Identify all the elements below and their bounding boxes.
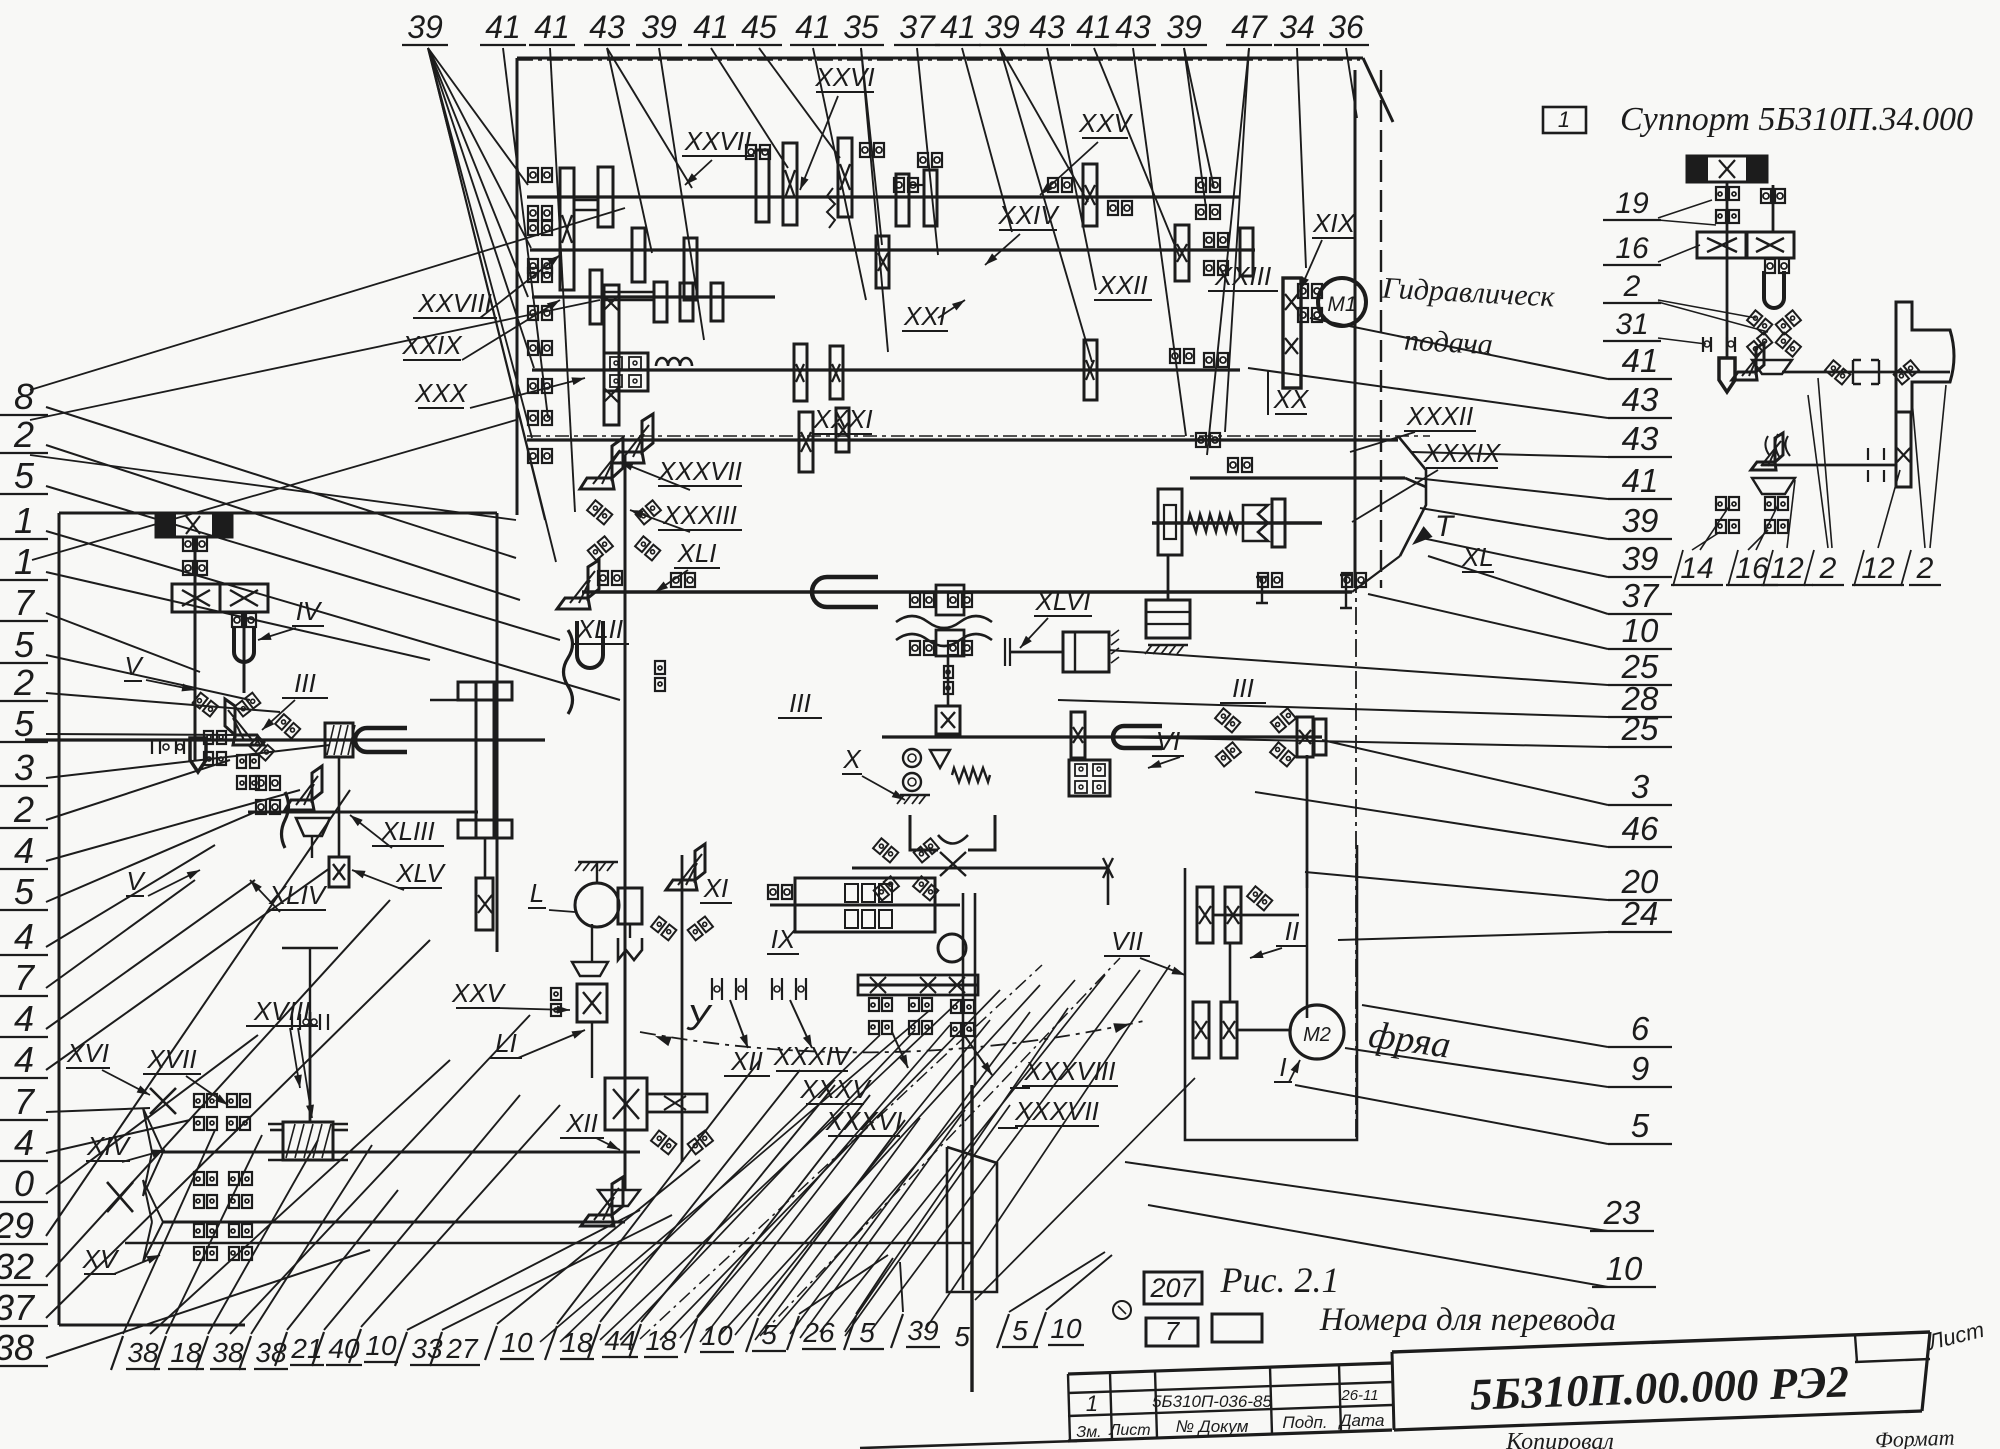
subdiagram |0|0| mark xyxy=(1703,337,1735,352)
svg-text:III: III xyxy=(789,688,811,718)
svg-text:38: 38 xyxy=(127,1337,159,1368)
svg-text:38: 38 xyxy=(255,1337,287,1368)
fittings on shaft III center xyxy=(1071,712,1085,758)
svg-text:4: 4 xyxy=(14,1039,34,1080)
svg-text:III: III xyxy=(294,668,316,698)
svg-text:7: 7 xyxy=(1165,1316,1181,1346)
svg-text:5: 5 xyxy=(14,455,35,496)
central vertical bearings xyxy=(655,661,665,674)
long thin crossing lines from left top xyxy=(30,208,625,390)
svg-text:7: 7 xyxy=(14,1081,36,1122)
shaft XXXII right y478 xyxy=(1190,476,1405,479)
svg-text:XXXV: XXXV xyxy=(799,1074,872,1104)
svg-text:XXVII: XXVII xyxy=(684,126,751,156)
shaft y523 hanger xyxy=(1167,555,1170,600)
svg-text:XXXVII: XXXVII xyxy=(1014,1096,1099,1126)
svg-text:XLVI: XLVI xyxy=(1035,586,1091,616)
svg-text:5: 5 xyxy=(14,871,35,912)
svg-text:34: 34 xyxy=(1279,9,1315,45)
svg-text:5Б310П-036-85: 5Б310П-036-85 xyxy=(1152,1392,1272,1411)
svg-text:Дата: Дата xyxy=(1338,1411,1385,1430)
svg-text:43: 43 xyxy=(589,9,625,45)
xbox on vertical x592 y1003 xyxy=(572,962,608,976)
shaft y812 and fittings xyxy=(248,811,478,814)
xbox with arm x626 y1104 xyxy=(605,1078,647,1130)
svg-text:5: 5 xyxy=(954,1321,970,1352)
svg-text:41: 41 xyxy=(940,9,976,45)
svg-text:IV: IV xyxy=(296,596,323,626)
svg-text:М1: М1 xyxy=(1327,293,1356,316)
shaft III center y737 xyxy=(882,735,1322,738)
svg-text:207: 207 xyxy=(1149,1273,1196,1303)
suppport callout box xyxy=(1543,107,1586,133)
svg-text:47: 47 xyxy=(1231,9,1268,45)
svg-text:4: 4 xyxy=(14,998,34,1039)
gears shaft4 right xyxy=(794,344,807,401)
central vertical shaft XXXIII x625 xyxy=(624,455,627,1190)
svg-text:19: 19 xyxy=(1615,187,1649,220)
leaders from top labels xyxy=(503,48,548,418)
bottom right trapezoid outline xyxy=(947,1147,997,1292)
svg-text:9: 9 xyxy=(1631,1050,1649,1087)
svg-text:38: 38 xyxy=(212,1337,244,1368)
svg-text:4: 4 xyxy=(14,916,34,957)
shaft III left y740 xyxy=(25,738,545,741)
svg-text:10: 10 xyxy=(365,1330,397,1361)
X cross mark left xyxy=(107,1182,133,1212)
svg-text:Суппорт 5Б310П.34.000: Суппорт 5Б310П.34.000 xyxy=(1620,101,1973,138)
bearing pairs center bottom xyxy=(712,978,746,1000)
shaft XXVII y250 xyxy=(530,248,1255,251)
svg-text:5: 5 xyxy=(1012,1315,1028,1346)
svg-text:4: 4 xyxy=(14,830,34,871)
svg-text:Номера для перевода: Номера для перевода xyxy=(1319,1302,1616,1338)
vertical shaft XVIII x310 xyxy=(309,1012,312,1122)
svg-text:XXXIX: XXXIX xyxy=(1423,438,1502,468)
svg-text:XLII: XLII xyxy=(576,614,623,644)
svg-text:5: 5 xyxy=(14,703,35,744)
note box 207 xyxy=(1144,1272,1202,1304)
svg-text:XXX: XXX xyxy=(414,378,469,408)
svg-text:10: 10 xyxy=(1606,1250,1643,1287)
svg-text:XLIII: XLIII xyxy=(380,816,434,846)
svg-text:XXIV: XXIV xyxy=(997,200,1060,230)
svg-text:Подп.: Подп. xyxy=(1282,1413,1327,1432)
title block big cell xyxy=(1392,1332,1930,1352)
left bearing stacks upper box xyxy=(528,168,538,182)
svg-text:1: 1 xyxy=(14,541,34,582)
svg-text:5: 5 xyxy=(761,1319,777,1350)
svg-text:35: 35 xyxy=(843,9,879,45)
drum Г and cup xyxy=(578,861,618,864)
svg-text:X: X xyxy=(842,744,862,774)
svg-text:32: 32 xyxy=(0,1246,34,1287)
motor M1 xyxy=(1318,278,1366,326)
wavy spline left of vertical xyxy=(564,630,573,714)
svg-text:7: 7 xyxy=(14,957,36,998)
svg-text:Лист: Лист xyxy=(1108,1422,1150,1439)
svg-text:XXVIII: XXVIII xyxy=(417,288,492,318)
subdiagram shaft y372 xyxy=(1782,371,1950,374)
svg-text:16: 16 xyxy=(1615,232,1649,265)
funnel right convergence xyxy=(1398,436,1426,556)
worm cluster center left xyxy=(910,593,920,607)
svg-text:10: 10 xyxy=(501,1327,533,1358)
svg-text:41: 41 xyxy=(485,9,521,45)
arrow T mark xyxy=(1408,526,1433,550)
gears shaft2 xyxy=(632,228,645,282)
svg-text:XII: XII xyxy=(565,1108,598,1138)
svg-text:6: 6 xyxy=(1631,1010,1650,1047)
xbox small x339 y870 xyxy=(329,857,349,887)
center bottom vertical border xyxy=(970,1085,973,1392)
vertical shaft V x195 xyxy=(194,537,197,760)
svg-text:XVI: XVI xyxy=(66,1038,109,1068)
subdiagram below xbox xyxy=(1765,259,1775,273)
svg-text:Формат: Формат xyxy=(1875,1425,1955,1449)
svg-text:XXV: XXV xyxy=(1078,108,1134,138)
svg-text:XXVI: XXVI xyxy=(814,62,874,92)
subdiagram double xbox xyxy=(1697,232,1747,258)
subdiagram flame mark xyxy=(1765,434,1790,458)
empty note box xyxy=(1212,1314,1262,1342)
sheet bottom edge partial xyxy=(860,1441,1077,1448)
label leaders upper xyxy=(800,96,838,190)
vertical shaft x682 xyxy=(681,855,684,1162)
svg-text:36: 36 xyxy=(1328,9,1364,45)
subdiagram vertical shaft 1 xyxy=(1726,182,1729,358)
svg-text:39: 39 xyxy=(1622,540,1659,577)
shaft XVII y1152 xyxy=(163,1151,640,1154)
claw fork y523 xyxy=(1243,505,1268,541)
svg-text:XVII: XVII xyxy=(146,1044,196,1074)
svg-text:38: 38 xyxy=(0,1327,34,1368)
clutch block shaft IX xyxy=(770,904,960,907)
svg-text:39: 39 xyxy=(1622,502,1659,539)
eye and triangle symbols xyxy=(903,749,921,767)
svg-text:XXXI: XXXI xyxy=(812,404,872,434)
subdiagram right flange xyxy=(1896,302,1954,412)
shaft XXVI y197 xyxy=(527,195,1240,198)
XVI XVII bevel cluster xyxy=(150,1088,176,1114)
svg-text:LI: LI xyxy=(495,1028,517,1058)
svg-text:12: 12 xyxy=(1861,552,1895,585)
big flange wheel I-beam xyxy=(476,682,494,838)
svg-text:5: 5 xyxy=(1631,1107,1650,1144)
svg-text:39: 39 xyxy=(984,9,1020,45)
gears shaft5 xyxy=(611,414,653,463)
svg-text:33: 33 xyxy=(411,1333,443,1364)
svg-text:I: I xyxy=(1279,1052,1286,1082)
gear pair shaft II xyxy=(1197,887,1213,943)
svg-text:Копировал: Копировал xyxy=(1505,1429,1614,1449)
svg-text:1: 1 xyxy=(14,500,34,541)
svg-text:41: 41 xyxy=(534,9,570,45)
svg-text:4: 4 xyxy=(14,1122,34,1163)
svg-text:43: 43 xyxy=(1115,9,1151,45)
fork U on central xliii xyxy=(577,621,603,668)
shaft XV y1222 xyxy=(163,1221,625,1224)
svg-text:XIX: XIX xyxy=(1312,208,1357,238)
svg-text:1: 1 xyxy=(1558,107,1570,132)
shaft y868 center xyxy=(852,867,1108,870)
svg-text:3: 3 xyxy=(14,747,34,788)
svg-text:27: 27 xyxy=(445,1333,479,1364)
svg-text:41: 41 xyxy=(693,9,729,45)
extra second leaders top xyxy=(1000,48,1092,362)
svg-text:V: V xyxy=(124,651,144,681)
svg-text:VI: VI xyxy=(1156,726,1181,756)
svg-text:XXIII: XXIII xyxy=(1214,261,1271,291)
dash dot vertical x1356 xyxy=(1355,575,1357,1140)
subdiagram shaft y465 xyxy=(1762,464,1896,467)
svg-text:2: 2 xyxy=(1819,552,1837,585)
svg-text:2: 2 xyxy=(13,789,34,830)
svg-text:39: 39 xyxy=(407,9,443,45)
circle pulley small xyxy=(938,934,966,962)
svg-text:XLV: XLV xyxy=(395,858,446,888)
svg-text:37: 37 xyxy=(1622,577,1660,614)
upper gearbox outline xyxy=(517,57,1363,60)
bevel cluster left shaft III xyxy=(193,693,218,717)
svg-text:18: 18 xyxy=(561,1327,593,1358)
left feed gearbox outline xyxy=(58,513,61,1325)
svg-text:XXII: XXII xyxy=(1097,270,1147,300)
XLI shaft left end bevel xyxy=(557,560,599,609)
svg-text:XII: XII xyxy=(730,1046,763,1076)
svg-text:26: 26 xyxy=(802,1317,835,1348)
svg-text:0: 0 xyxy=(14,1163,34,1204)
svg-text:XXXIV: XXXIV xyxy=(773,1041,853,1071)
svg-text:10: 10 xyxy=(701,1320,733,1351)
svg-text:43: 43 xyxy=(1622,420,1659,457)
shaft ratchet y523 xyxy=(1152,521,1322,525)
dashdot leaders lower center xyxy=(640,965,1042,1339)
svg-text:XVIII: XVIII xyxy=(253,996,310,1026)
svg-text:XXXVI: XXXVI xyxy=(825,1106,903,1136)
svg-text:14: 14 xyxy=(1680,552,1713,585)
double xbox gearbox xyxy=(172,584,220,612)
svg-text:XXIX: XXIX xyxy=(401,330,463,360)
svg-text:подача: подача xyxy=(1403,324,1493,362)
hatch coupling on shaft III xyxy=(325,723,353,757)
gear cluster shaft1 left xyxy=(560,168,574,290)
subdiagram vertical shaft 2 xyxy=(1772,185,1775,232)
svg-text:39: 39 xyxy=(641,9,677,45)
svg-text:5: 5 xyxy=(14,624,35,665)
shaft XXIX-XXX y370 xyxy=(532,368,1240,371)
subdiagram bearing stacks bottom xyxy=(1716,497,1726,510)
svg-text:39: 39 xyxy=(1166,9,1202,45)
C-clamp bracket center xyxy=(910,815,995,850)
svg-text:41: 41 xyxy=(1622,462,1659,499)
circled mark xyxy=(1113,1301,1131,1319)
bearing pairs lower left of box xyxy=(204,731,213,744)
coil on shaft4 xyxy=(656,358,692,366)
svg-text:XX: XX xyxy=(1273,384,1310,414)
svg-text:41: 41 xyxy=(795,9,831,45)
svg-text:IX: IX xyxy=(771,924,797,954)
svg-text:№ Докум: № Докум xyxy=(1176,1417,1249,1436)
svg-text:XXXVIII: XXXVIII xyxy=(1023,1056,1115,1086)
subdiagram bevel trap xyxy=(1752,360,1792,374)
svg-text:26-11: 26-11 xyxy=(1340,1387,1378,1404)
svg-text:7: 7 xyxy=(14,582,36,623)
vertical shaft II x1307 xyxy=(1306,755,1309,888)
leader fan from top label 39 xyxy=(428,48,528,185)
subdiagram number leaders xyxy=(1692,532,1720,550)
shaft XXVIII y297 xyxy=(532,295,775,298)
cone bullet xyxy=(152,740,184,754)
svg-text:XI: XI xyxy=(703,873,729,903)
hydraulic cylinder XLVI xyxy=(1063,632,1109,672)
svg-text:29: 29 xyxy=(0,1205,34,1246)
svg-text:31: 31 xyxy=(1615,308,1648,341)
subdiagram pulley black box xyxy=(1687,156,1767,182)
svg-text:8: 8 xyxy=(14,376,34,417)
subdiagram bullet xyxy=(1719,358,1735,392)
svg-text:XLI: XLI xyxy=(676,538,716,568)
gears shaft1 right xyxy=(756,150,769,222)
vertical shaft IV x244 xyxy=(243,612,246,693)
input black pulley xyxy=(156,513,232,537)
svg-text:II: II xyxy=(1285,916,1299,946)
svg-text:43: 43 xyxy=(1029,9,1065,45)
svg-text:41: 41 xyxy=(1076,9,1112,45)
svg-text:XXXII: XXXII xyxy=(1406,401,1473,431)
M1 drive gear block xyxy=(1283,278,1301,388)
svg-text:V: V xyxy=(126,866,146,896)
svg-text:37: 37 xyxy=(0,1287,36,1328)
svg-text:41: 41 xyxy=(1622,342,1659,379)
svg-text:2: 2 xyxy=(1623,270,1641,303)
title block frame xyxy=(1068,1363,1392,1374)
svg-text:25: 25 xyxy=(1621,710,1659,747)
svg-text:VII: VII xyxy=(1111,926,1143,956)
gear pair shaft I xyxy=(1193,1002,1209,1058)
leaders from left column labels xyxy=(46,407,516,558)
shaft XXXI y440 xyxy=(527,438,1398,441)
svg-text:46: 46 xyxy=(1622,810,1659,847)
gear bar y985 xyxy=(858,984,978,987)
svg-text:XLIV: XLIV xyxy=(268,880,328,910)
right block outline xyxy=(1185,845,1357,1140)
vertical link shaft II to I xyxy=(1229,943,1232,1002)
tall gear column shaft4 xyxy=(604,285,619,425)
ratchet block on shaft y523 xyxy=(1158,489,1182,555)
svg-text:3: 3 xyxy=(1631,768,1650,805)
shaft XLI long y592 xyxy=(582,590,1352,593)
svg-text:T: T xyxy=(1435,510,1456,543)
svg-text:5: 5 xyxy=(859,1317,875,1348)
note box 7 xyxy=(1146,1318,1198,1346)
svg-text:12: 12 xyxy=(1770,552,1804,585)
svg-text:37: 37 xyxy=(899,9,936,45)
svg-text:10: 10 xyxy=(1050,1313,1082,1344)
svg-text:24: 24 xyxy=(1621,895,1659,932)
bearings below gear bar xyxy=(869,998,879,1011)
dog clutch shaft4 xyxy=(604,353,648,391)
worm block XVIII xyxy=(283,1122,333,1160)
svg-text:10: 10 xyxy=(1622,612,1659,649)
svg-text:М2: М2 xyxy=(1303,1024,1331,1046)
svg-text:Рис. 2.1: Рис. 2.1 xyxy=(1220,1260,1340,1300)
gears shaft3 cluster xyxy=(590,270,602,324)
motor M2 xyxy=(1290,1005,1344,1059)
vertical line right block xyxy=(1306,888,1309,1018)
svg-text:1: 1 xyxy=(1086,1391,1098,1416)
bevel top of central vertical xyxy=(580,438,623,489)
svg-text:L: L xyxy=(530,878,544,908)
svg-text:39: 39 xyxy=(907,1315,938,1346)
svg-text:XL: XL xyxy=(1461,542,1494,572)
svg-text:43: 43 xyxy=(1622,381,1659,418)
svg-text:III: III xyxy=(1232,673,1254,703)
svg-text:2: 2 xyxy=(13,662,34,703)
bevel pair right of bullet xyxy=(249,736,274,760)
svg-text:У: У xyxy=(685,997,712,1038)
svg-text:2: 2 xyxy=(1916,552,1934,585)
bottom bevel of central vertical xyxy=(581,1177,623,1226)
svg-text:23: 23 xyxy=(1603,1194,1641,1231)
svg-text:45: 45 xyxy=(741,9,777,45)
svg-text:XIV: XIV xyxy=(86,1131,132,1161)
steep multi leaders lower center xyxy=(540,1010,930,1342)
leaders from right column labels xyxy=(1310,318,1608,379)
spring on shaft y523 xyxy=(1188,514,1238,532)
svg-text:Зм.: Зм. xyxy=(1076,1424,1101,1441)
fork on shaft III xyxy=(355,728,407,752)
svg-text:XXV: XXV xyxy=(451,978,507,1008)
XLI shaft fittings xyxy=(598,571,608,585)
vertical to xbox y720 xyxy=(947,656,950,706)
svg-text:XV: XV xyxy=(82,1244,120,1274)
